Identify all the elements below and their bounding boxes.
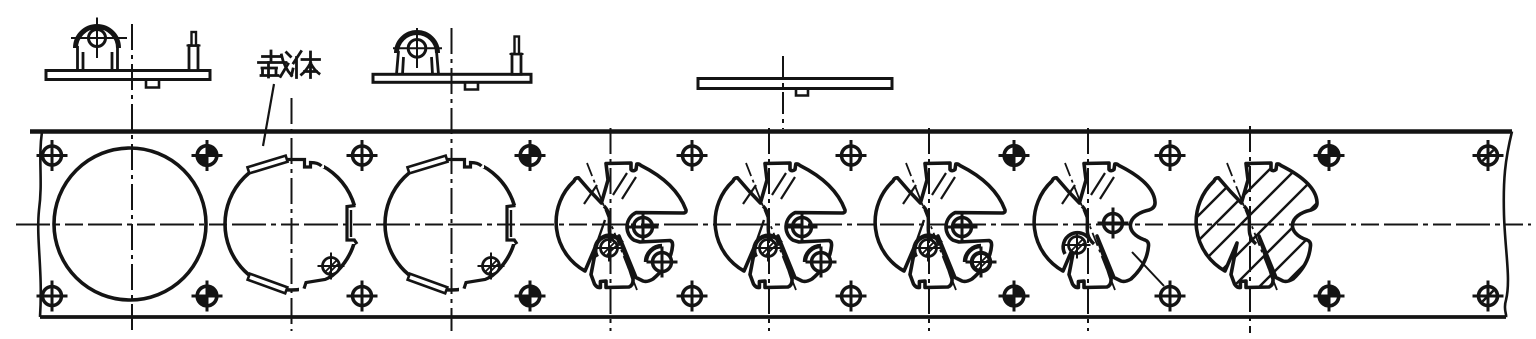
strip left broken edge <box>38 132 42 318</box>
punched pilot hole column 2 top <box>192 140 223 171</box>
open pilot hole column 6 top <box>836 140 867 171</box>
open pilot hole column 5 top <box>677 140 708 171</box>
open pilot hole column 6 bottom <box>836 281 867 312</box>
open pilot hole column 3 top <box>347 140 378 171</box>
leader line <box>263 84 274 146</box>
horizontal strip centerline <box>16 224 1531 226</box>
strip right broken edge <box>1504 132 1512 318</box>
open pilot hole column 1 top <box>37 140 68 171</box>
载 <box>259 51 287 63</box>
punched pilot hole column 4 bottom <box>515 281 546 312</box>
strip bottom edge <box>40 315 1506 319</box>
base plate <box>46 71 210 80</box>
part 1 bracket side view <box>46 18 210 88</box>
open pilot hole column 5 bottom <box>677 281 708 312</box>
punched pilot hole column 7 bottom <box>999 281 1030 312</box>
slashed pilot hole column 10 bottom <box>1473 281 1504 312</box>
体 <box>294 52 302 78</box>
punched pilot hole column 7 top <box>999 140 1030 171</box>
station 7 pinwheel <box>1034 163 1164 290</box>
dome legs <box>78 46 118 71</box>
bottom tab <box>146 80 159 88</box>
punched pilot hole column 4 top <box>515 140 546 171</box>
station 6 pinwheel <box>875 163 1005 290</box>
slashed pilot hole column 10 top <box>1473 140 1504 171</box>
part 2 bracket side view <box>373 28 531 90</box>
station 6 vertical centerline <box>928 128 930 331</box>
open pilot hole column 1 bottom <box>37 281 68 312</box>
punched pilot hole column 9 bottom <box>1314 281 1345 312</box>
open pilot hole column 8 top <box>1155 140 1186 171</box>
station 4 pinwheel <box>556 163 686 290</box>
station 8 vertical centerline <box>1249 126 1251 333</box>
station 1 blank circle <box>54 148 206 300</box>
dome arch <box>76 27 119 48</box>
station 3 / part 2 vertical centerline <box>451 28 453 331</box>
station 1 / part 1 vertical centerline <box>131 24 133 332</box>
open pilot hole column 3 bottom <box>347 281 378 312</box>
part 3 flat plate side view <box>698 79 892 96</box>
station 4 vertical centerline <box>610 128 612 331</box>
strip top edge <box>30 129 1512 133</box>
station 8 pinwheel hatched <box>1172 146 1349 323</box>
station 5 vertical centerline <box>768 128 770 331</box>
punched pilot hole column 2 bottom <box>192 281 223 312</box>
part 3 vertical centerline <box>782 56 784 129</box>
station 3 carrier <box>385 149 526 299</box>
station 5 pinwheel <box>715 163 845 290</box>
station 2 carrier <box>225 149 366 299</box>
station 7 vertical centerline <box>1087 128 1089 331</box>
station 2 vertical centerline <box>291 98 293 331</box>
open pilot hole column 8 bottom <box>1155 281 1186 312</box>
dome circle <box>89 30 106 47</box>
station 6 rivet hatched overlay <box>968 249 995 276</box>
punched pilot hole column 9 top <box>1314 140 1345 171</box>
right post and pin <box>189 46 198 71</box>
